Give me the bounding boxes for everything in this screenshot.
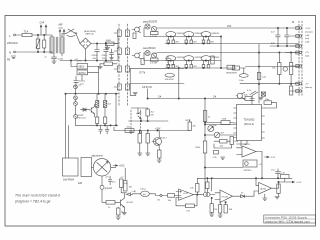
connector pin bbox=[296, 51, 299, 54]
capacitor C6 bbox=[110, 49, 114, 58]
svg-text:82k0: 82k0 bbox=[196, 147, 202, 149]
svg-text:(oranje): (oranje) bbox=[305, 30, 313, 33]
label +12V bbox=[265, 156, 270, 158]
capacitor C12 bbox=[250, 91, 258, 96]
op-amp U8 bbox=[220, 190, 233, 203]
wire bbox=[117, 55, 119, 61]
resistor R35 bbox=[146, 134, 150, 144]
transistor Q15 bbox=[135, 53, 140, 58]
connector J3 bbox=[117, 66, 121, 72]
driver Q1a bbox=[145, 24, 150, 29]
transistor Q6 bbox=[115, 198, 124, 207]
wire bbox=[115, 94, 117, 126]
LED D5 bbox=[74, 115, 78, 119]
node bbox=[37, 34, 38, 35]
resistor R6 bbox=[227, 65, 235, 69]
wire collector bus bbox=[157, 52, 299, 54]
wire bbox=[75, 118, 77, 125]
svg-text:8M70: 8M70 bbox=[232, 73, 238, 75]
svg-text:+12V: +12V bbox=[270, 157, 276, 159]
transistor Q14 bbox=[135, 27, 140, 32]
transistor Q10 bbox=[184, 56, 194, 61]
wire bbox=[194, 194, 202, 196]
emitter bus wire bbox=[165, 43, 299, 45]
wire 0V rail bbox=[60, 60, 118, 62]
wire bbox=[75, 89, 77, 94]
resistor R49 bbox=[206, 182, 209, 189]
ground bbox=[122, 207, 126, 215]
terminal 6 bbox=[299, 83, 301, 85]
bus wire bbox=[76, 124, 119, 126]
resistor R46 bbox=[281, 174, 289, 178]
op-amp U7 bbox=[179, 189, 194, 200]
title block box bbox=[264, 215, 316, 223]
resistor R1b bbox=[185, 40, 188, 44]
terminal 2 bbox=[299, 35, 301, 37]
IC pins right bbox=[262, 108, 265, 138]
wire bbox=[130, 84, 136, 96]
ground bbox=[218, 213, 222, 217]
capacitor C15 bbox=[166, 56, 171, 64]
wire bbox=[15, 34, 22, 36]
svg-text:(+B): (+B) bbox=[132, 191, 136, 193]
fuse F1 bbox=[22, 33, 32, 36]
svg-text:u741: u741 bbox=[183, 193, 189, 195]
svg-text:+0/CV: +0/CV bbox=[76, 61, 83, 63]
resistor R26 bbox=[245, 97, 252, 101]
resistor R17 bbox=[146, 109, 149, 116]
resistor R22 bbox=[289, 86, 292, 95]
transistor Q2 bbox=[166, 32, 176, 37]
driver Q8b bbox=[151, 53, 156, 58]
ground bbox=[52, 61, 56, 63]
svg-text:+1V: +1V bbox=[105, 177, 109, 179]
capacitor C1 bbox=[43, 40, 46, 48]
transistor Q9 bbox=[166, 56, 176, 61]
LED D3 bbox=[74, 96, 78, 100]
node bbox=[96, 43, 97, 44]
ground bbox=[263, 194, 267, 200]
resistor R41 bbox=[168, 194, 175, 198]
ground bbox=[275, 193, 279, 198]
capacitor C5 bbox=[52, 53, 57, 61]
diode D7 bbox=[127, 193, 133, 196]
svg-text:2N2955: 2N2955 bbox=[212, 57, 220, 59]
cable dashed lower bbox=[140, 110, 142, 131]
IC U2 bbox=[237, 105, 262, 141]
wire vertical bbox=[204, 99, 206, 142]
bridge rectifier BR1 bbox=[80, 38, 91, 49]
wire bbox=[279, 53, 291, 84]
resistor R11 bbox=[103, 101, 106, 108]
LED D2 bbox=[74, 85, 78, 89]
transformer T1 secondary bbox=[60, 37, 64, 53]
resistor R2c bbox=[202, 65, 205, 69]
terminal 3 bbox=[299, 45, 301, 47]
wire bbox=[102, 189, 106, 202]
wire bbox=[256, 178, 259, 185]
svg-text:CAP: CAP bbox=[40, 21, 45, 24]
trimmer VR4 bbox=[165, 74, 175, 78]
svg-text:The mail-restricted stand-b: The mail-restricted stand-b bbox=[15, 193, 60, 197]
op-amp U9 bbox=[259, 183, 272, 195]
ground bbox=[259, 98, 263, 100]
svg-text:adjustment: adjustment bbox=[92, 155, 104, 158]
ground bbox=[221, 157, 225, 159]
regulator U4 bbox=[243, 160, 257, 167]
svg-text:D77k: D77k bbox=[140, 72, 146, 75]
resistor R30 bbox=[230, 137, 234, 145]
diode D8 bbox=[241, 195, 255, 198]
connector pin bbox=[296, 35, 299, 38]
wire bbox=[233, 195, 241, 197]
svg-text:100u: 100u bbox=[239, 80, 245, 82]
box outline bbox=[130, 68, 184, 83]
capacitor C14 bbox=[276, 169, 281, 179]
resistor R2b bbox=[185, 65, 188, 69]
svg-text:2N3055: 2N3055 bbox=[212, 33, 220, 35]
bus wire bbox=[240, 83, 299, 85]
resistor R50 bbox=[203, 111, 207, 122]
wire bbox=[204, 153, 206, 192]
emitter bus wire bbox=[165, 67, 236, 69]
diode D6 bbox=[81, 108, 90, 111]
wire bbox=[246, 66, 300, 68]
wire bbox=[131, 107, 148, 109]
ground PE bbox=[11, 56, 16, 59]
svg-text:+1.5V: +1.5V bbox=[296, 182, 302, 184]
svg-text:100R: 100R bbox=[106, 40, 112, 42]
capacitor C9 bbox=[250, 96, 255, 105]
resistor R48 bbox=[224, 205, 227, 214]
resistor R1a bbox=[167, 40, 170, 44]
transistor Q3 bbox=[184, 32, 194, 37]
node Vin bbox=[160, 194, 162, 196]
wire base bus bbox=[144, 60, 221, 62]
capacitor C17 bbox=[105, 125, 109, 134]
ground bbox=[210, 213, 214, 217]
ground bbox=[110, 58, 114, 60]
resistor R14 bbox=[104, 62, 113, 66]
wire bbox=[205, 134, 237, 136]
wire bbox=[178, 68, 180, 99]
svg-text:Innovative PSU 15/30 Supply: Innovative PSU 15/30 Supply bbox=[265, 216, 307, 220]
svg-text:2N3055: 2N3055 bbox=[195, 33, 203, 35]
bus wire bbox=[66, 93, 119, 95]
resistor R20 bbox=[278, 63, 281, 75]
wire bbox=[114, 33, 117, 87]
resistor R1c bbox=[202, 40, 205, 44]
resistor R40 bbox=[120, 179, 124, 188]
capacitor C11 bbox=[108, 176, 111, 185]
svg-text:(mr)(over = TB2.4-ts.ge: (mr)(over = TB2.4-ts.ge bbox=[15, 200, 51, 204]
capacitor C4 bbox=[74, 76, 79, 87]
bus wire bbox=[114, 130, 190, 132]
ground bbox=[138, 153, 142, 155]
driver Q8a bbox=[145, 50, 150, 55]
resistor R13 bbox=[103, 117, 106, 124]
resistor R42 bbox=[186, 204, 195, 208]
svg-text:(wit): (wit) bbox=[305, 54, 309, 57]
svg-text:15A: 15A bbox=[227, 25, 232, 28]
wire bbox=[237, 141, 248, 147]
svg-text:1M: 1M bbox=[129, 187, 132, 189]
svg-text:+7V: +7V bbox=[305, 52, 309, 54]
resistor R44 bbox=[210, 204, 213, 213]
wire bbox=[162, 195, 167, 197]
pot VR1 bbox=[93, 159, 110, 176]
svg-text:(0r): (0r) bbox=[143, 193, 146, 196]
svg-text:BC517: BC517 bbox=[160, 138, 167, 140]
resistor R45 bbox=[219, 205, 222, 214]
wire bbox=[258, 44, 260, 103]
transformer core bbox=[56, 37, 58, 53]
transistor Q4 bbox=[201, 32, 211, 37]
resistor R43 bbox=[196, 184, 199, 193]
cable dashed bbox=[118, 24, 120, 106]
resistor R2a bbox=[167, 65, 170, 69]
cable dashed bbox=[127, 24, 129, 106]
supply rail wire bbox=[197, 177, 292, 179]
wire bbox=[82, 67, 99, 94]
svg-text:(9C11.2): (9C11.2) bbox=[244, 122, 254, 126]
resistor R36 bbox=[158, 150, 162, 158]
svg-text:ground: ground bbox=[105, 188, 113, 190]
svg-text:pass BC557B: pass BC557B bbox=[143, 22, 158, 24]
pot VR2 bbox=[208, 126, 214, 132]
bus wire C bbox=[148, 98, 245, 100]
terminal 5 bbox=[299, 65, 301, 67]
capacitor C3 bbox=[104, 44, 109, 61]
terminal strip dashed bbox=[298, 21, 300, 96]
wire bbox=[66, 94, 69, 158]
resistor R12 bbox=[96, 117, 99, 124]
terminal 1 bbox=[299, 27, 301, 29]
switch S1 bbox=[36, 39, 40, 49]
wire bbox=[71, 61, 99, 73]
ground terminal bbox=[100, 185, 104, 189]
LED D4 bbox=[74, 102, 78, 106]
resistor R10 bbox=[96, 101, 99, 108]
resistor R21 bbox=[289, 63, 292, 75]
ground bbox=[146, 153, 150, 155]
svg-text:MPS: MPS bbox=[186, 120, 191, 122]
resistor R15 bbox=[141, 59, 144, 65]
wire bbox=[205, 122, 221, 124]
svg-text:230VAC: 230VAC bbox=[7, 41, 19, 45]
svg-text:2xM PM34: 2xM PM34 bbox=[63, 179, 75, 181]
resistor R29 bbox=[220, 140, 228, 144]
ground bbox=[116, 215, 120, 219]
transistor Q7 bbox=[154, 138, 162, 146]
cable dashed lower bbox=[130, 110, 132, 131]
regulator U5 bbox=[77, 64, 88, 70]
wire bbox=[147, 89, 149, 99]
wire bbox=[265, 103, 277, 108]
svg-text:-7V: -7V bbox=[305, 84, 309, 86]
wire bbox=[202, 194, 215, 196]
svg-text:100u/16V: 100u/16V bbox=[165, 79, 175, 81]
wire base bus bbox=[144, 36, 221, 38]
connector J4 bbox=[117, 84, 121, 90]
regulator U6 bbox=[77, 70, 88, 75]
svg-text:PE: PE bbox=[7, 59, 11, 62]
connector J2 bbox=[117, 48, 121, 54]
ground bbox=[98, 64, 102, 69]
svg-text:OK101: OK101 bbox=[222, 197, 230, 199]
svg-text:1kB: 1kB bbox=[78, 183, 82, 185]
transformer T1 primary bbox=[50, 37, 54, 53]
svg-text:1W: 1W bbox=[150, 114, 153, 116]
wire bbox=[176, 192, 179, 198]
wire bbox=[270, 45, 299, 47]
meter box M1b bbox=[81, 158, 92, 177]
wire bbox=[75, 100, 77, 115]
resistor R28 bbox=[221, 121, 230, 125]
svg-text:+15V: +15V bbox=[305, 28, 311, 30]
svg-text:+VSC: +VSC bbox=[119, 166, 125, 168]
transistor Q11 bbox=[201, 56, 211, 61]
svg-text:GBPC35: GBPC35 bbox=[85, 34, 94, 36]
svg-text:(denote): (denote) bbox=[78, 116, 86, 119]
resistor R16 bbox=[133, 33, 136, 39]
svg-text:A8F: A8F bbox=[59, 24, 64, 27]
capacitor C10 bbox=[204, 193, 208, 197]
wire bbox=[237, 148, 263, 155]
svg-text:2200u: 2200u bbox=[79, 81, 86, 83]
resistor R47 bbox=[277, 184, 280, 193]
resistor R25 bbox=[264, 101, 272, 105]
box X1 bbox=[261, 92, 265, 96]
transistor Q5 bbox=[90, 107, 95, 114]
trimmer VR5 bbox=[239, 74, 248, 78]
svg-text:drawn by Will - GTW.lapped.com: drawn by Will - GTW.lapped.com bbox=[265, 220, 310, 224]
wire bbox=[121, 188, 126, 199]
svg-text:2N2955: 2N2955 bbox=[195, 57, 203, 59]
svg-text:40V: 40V bbox=[93, 58, 97, 60]
resistor R38 bbox=[106, 201, 115, 205]
svg-text:pass BD140: pass BD140 bbox=[143, 48, 156, 50]
resistor R24 bbox=[233, 66, 240, 70]
wire bbox=[91, 43, 118, 45]
svg-text:(+B+): (+B+) bbox=[140, 188, 146, 190]
wire bbox=[215, 193, 220, 205]
wire bbox=[214, 141, 232, 148]
wire bbox=[140, 143, 148, 153]
svg-text:(+B): (+B) bbox=[305, 35, 309, 37]
capacitor C8 bbox=[285, 28, 290, 46]
resistor R39 bbox=[117, 208, 121, 215]
wire bbox=[205, 167, 243, 169]
svg-text:gauge: gauge bbox=[78, 115, 85, 117]
wire bbox=[286, 36, 300, 91]
svg-text:C# Ø V/C: C# Ø V/C bbox=[142, 86, 153, 89]
svg-text:6B1V: 6B1V bbox=[79, 66, 85, 69]
resistor R19 bbox=[257, 73, 261, 80]
wire bbox=[220, 37, 222, 69]
capacitor C2 bbox=[95, 44, 100, 61]
transistor Q13 bbox=[237, 93, 242, 98]
svg-text:7k28: 7k28 bbox=[222, 119, 228, 121]
wire arrow bbox=[290, 181, 295, 183]
connector J1 bbox=[117, 30, 121, 36]
wire collector bus bbox=[157, 27, 299, 29]
connector pin bbox=[296, 90, 299, 93]
wire bbox=[129, 120, 169, 122]
wire bbox=[240, 67, 246, 69]
svg-text:63V: 63V bbox=[271, 43, 275, 45]
resistor R33 bbox=[125, 129, 134, 133]
svg-text:100u/3V: 100u/3V bbox=[166, 65, 175, 67]
wire bbox=[117, 37, 119, 49]
wire bbox=[272, 178, 290, 188]
connector pin bbox=[296, 45, 299, 48]
wire bbox=[51, 35, 53, 53]
ground bbox=[157, 160, 161, 162]
connector pin bbox=[296, 65, 299, 68]
meter box M1a bbox=[63, 158, 79, 176]
svg-text:4700u: 4700u bbox=[92, 55, 99, 57]
svg-text:0.1 5W: 0.1 5W bbox=[150, 63, 158, 65]
resistor R37 bbox=[124, 181, 128, 192]
wire bbox=[101, 176, 103, 185]
capacitor C16 bbox=[99, 125, 103, 134]
transistor Q16 bbox=[137, 108, 141, 119]
IC pins left bbox=[234, 108, 237, 138]
capacitor C7 bbox=[276, 28, 281, 46]
wire bbox=[254, 191, 259, 196]
wire bbox=[205, 124, 237, 126]
wire bbox=[15, 51, 52, 53]
svg-text:T1A: T1A bbox=[24, 30, 29, 34]
wire bbox=[211, 178, 213, 191]
resistor R34 bbox=[138, 134, 142, 144]
terminal 4 bbox=[299, 51, 301, 53]
svg-text:35V: 35V bbox=[102, 58, 106, 60]
terminal bbox=[130, 131, 132, 133]
svg-text:TDA1562: TDA1562 bbox=[244, 118, 256, 122]
svg-text:2M7912: 2M7912 bbox=[244, 170, 253, 172]
wire bbox=[32, 34, 52, 36]
connector pin bbox=[296, 82, 299, 85]
resistor R0a bbox=[151, 32, 159, 35]
svg-text:(+B): (+B) bbox=[305, 42, 309, 44]
resistor R27 bbox=[188, 122, 192, 131]
transistor Q12 bbox=[283, 67, 287, 71]
wire bbox=[76, 34, 80, 44]
terminal bbox=[139, 131, 141, 133]
svg-text:4M713: 4M713 bbox=[78, 72, 86, 75]
rotary switch S2 bbox=[66, 29, 76, 34]
resistor R0b bbox=[151, 58, 159, 61]
svg-text:(0,4): (0,4) bbox=[59, 28, 64, 30]
resistor R32 bbox=[214, 151, 219, 155]
svg-text:N: N bbox=[9, 51, 11, 55]
ground bbox=[133, 93, 137, 95]
op-amp U3 bbox=[242, 146, 256, 157]
resistor R14b bbox=[106, 42, 115, 46]
resistor R5 bbox=[211, 56, 214, 64]
resistor R31 bbox=[203, 141, 207, 153]
terminal 7 bbox=[299, 90, 301, 92]
svg-text:(blauw): (blauw) bbox=[305, 87, 312, 89]
pot VR3 bbox=[214, 132, 220, 138]
feedback wire bbox=[176, 198, 186, 206]
driver Q1b bbox=[151, 26, 156, 31]
connector pin bbox=[296, 27, 299, 30]
svg-text:uA741: uA741 bbox=[260, 188, 267, 191]
meter M2 bbox=[141, 191, 150, 196]
